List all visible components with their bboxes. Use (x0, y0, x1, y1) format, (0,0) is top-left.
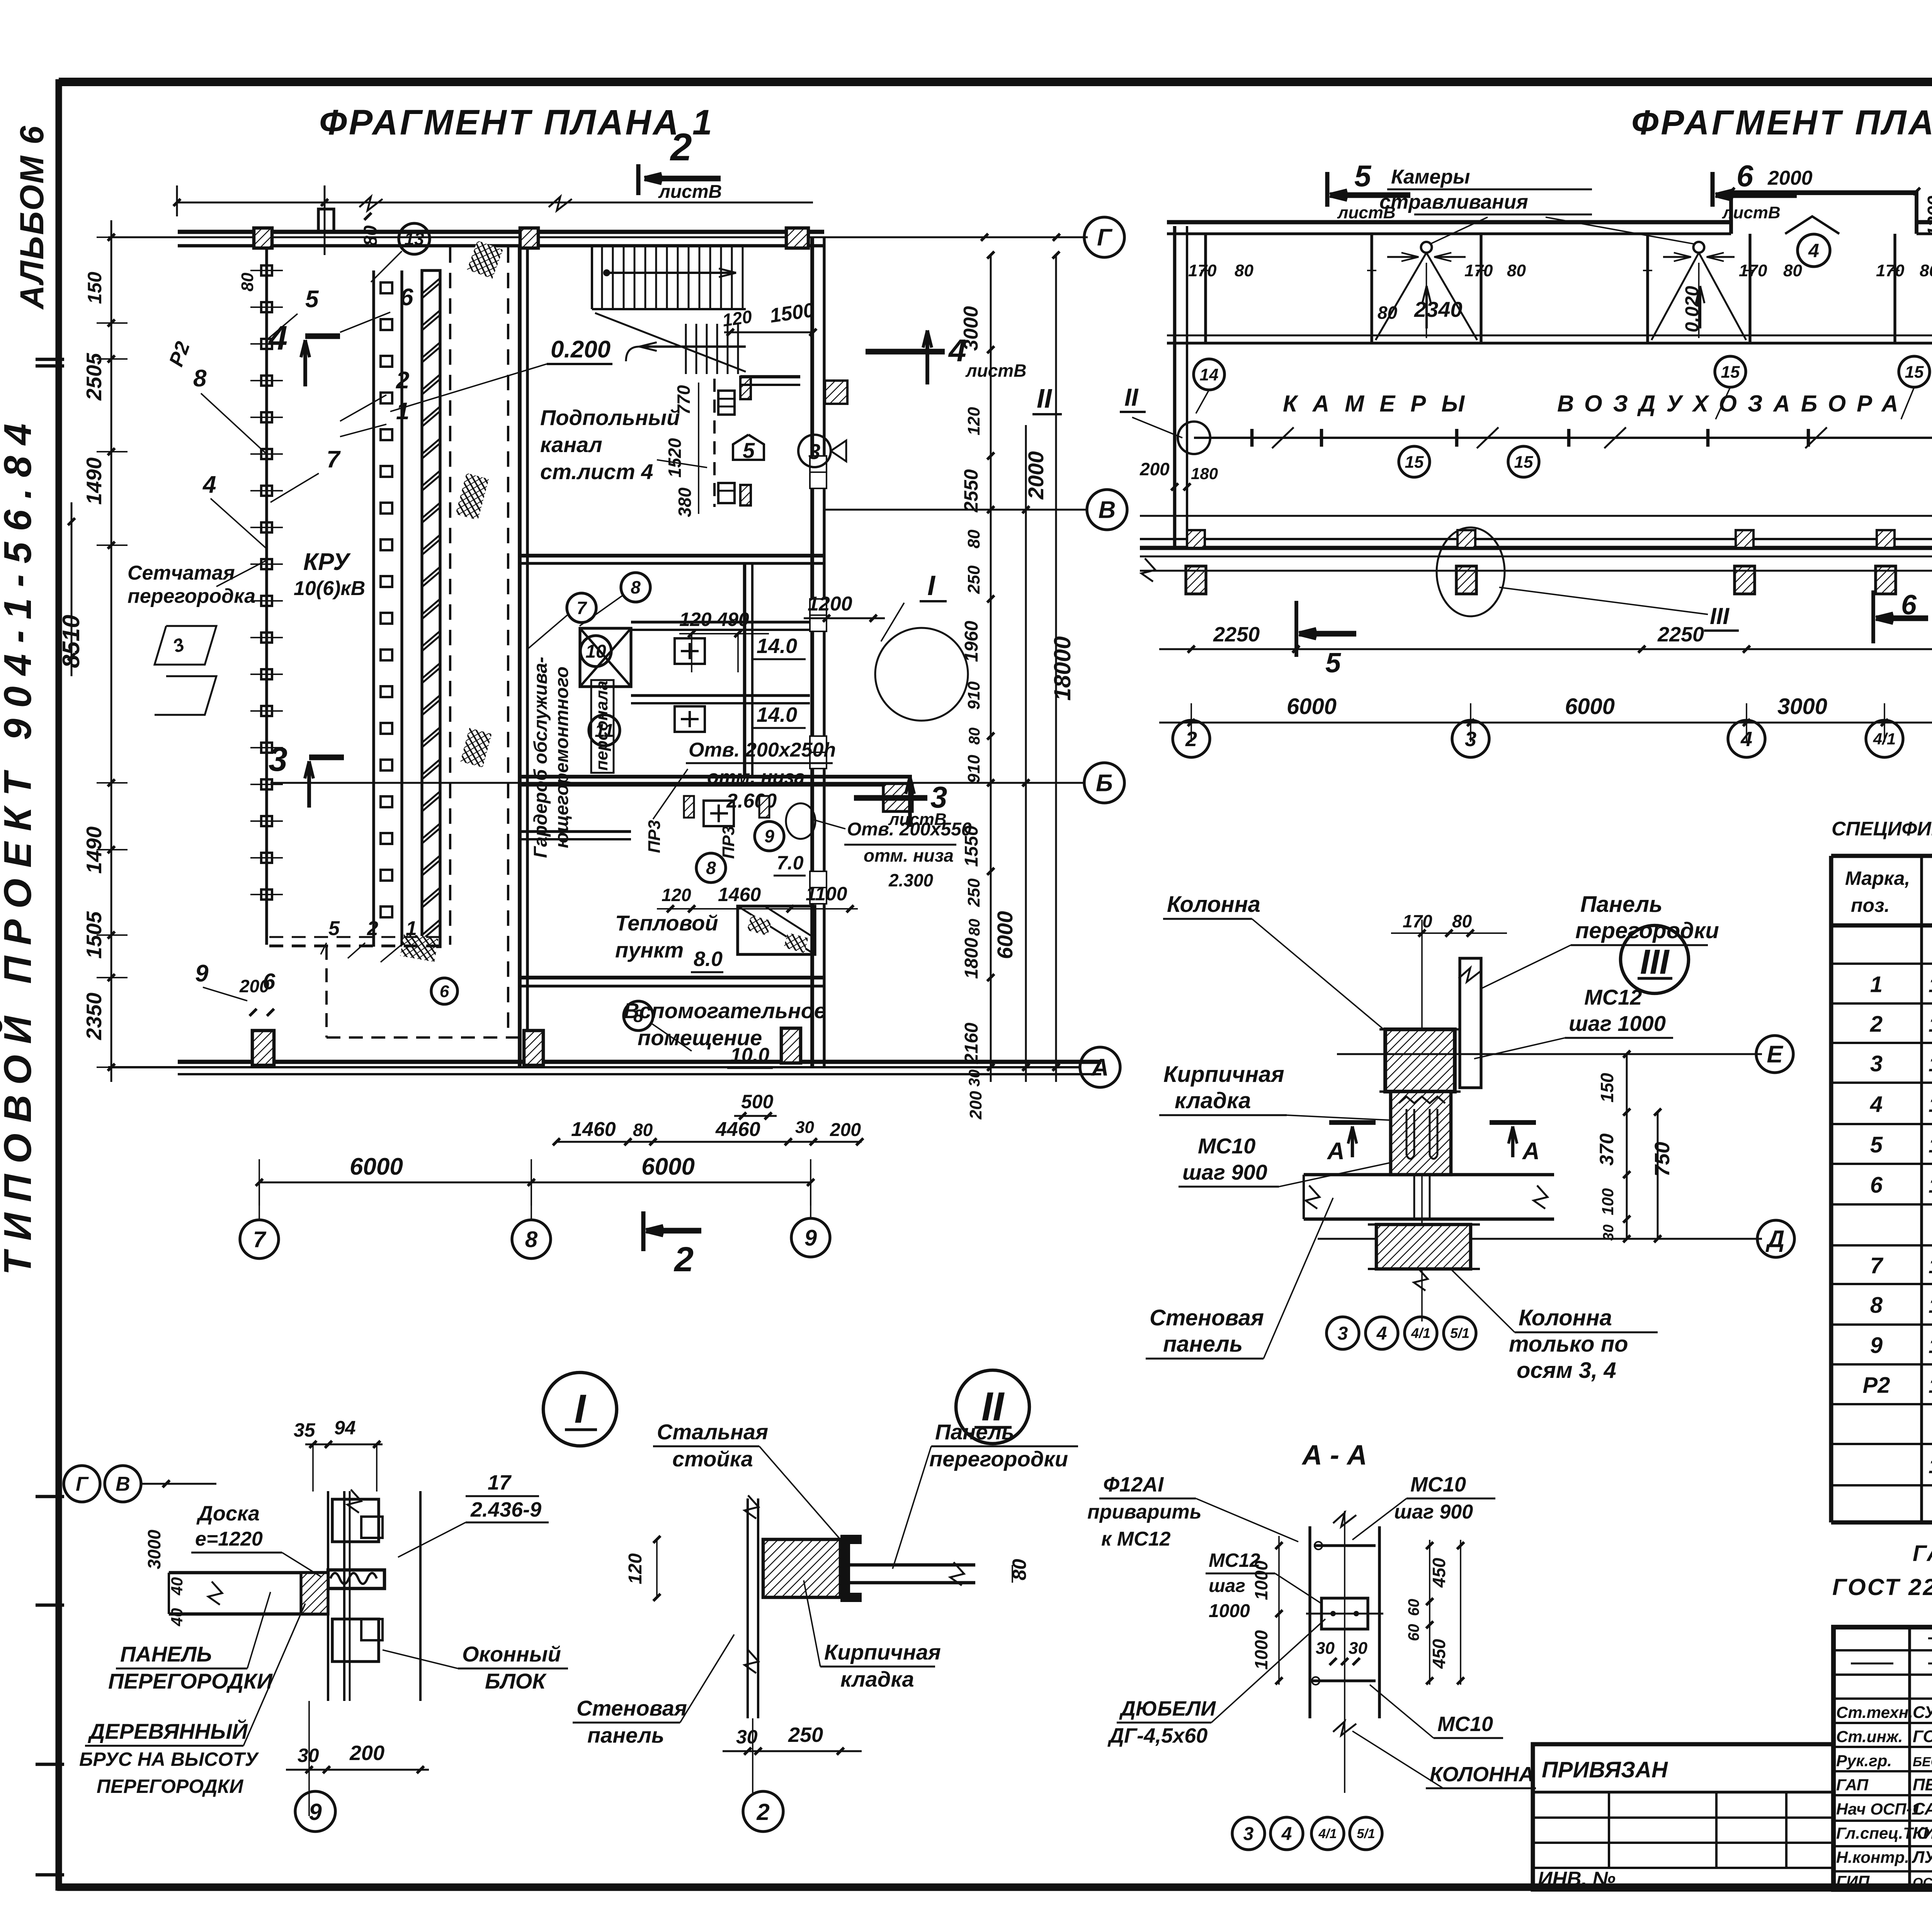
svg-text:8510: 8510 (58, 615, 85, 668)
title block rows left section (1833, 1649, 1932, 1651)
detail AA center plate (1321, 1598, 1368, 1629)
section mark 2 bottom (641, 1211, 646, 1251)
crosshatch opening marks (467, 240, 503, 279)
detail2 steel channel C (840, 1535, 862, 1602)
svg-text:11: 11 (595, 721, 614, 741)
plan1 outer dim 8510 (71, 502, 73, 676)
svg-text:ГИП: ГИП (1836, 1872, 1870, 1891)
axis V circle (1087, 490, 1127, 530)
axis G wall (178, 230, 824, 234)
svg-text:Н.контр.: Н.контр. (1836, 1848, 1909, 1866)
axis A wall and line (108, 1066, 1080, 1068)
svg-text:450: 450 (1429, 1639, 1449, 1669)
svg-text:80: 80 (966, 728, 983, 745)
svg-text:Г: Г (76, 1473, 89, 1495)
circled refs 7 8 (567, 593, 596, 622)
detail AA right dims (1429, 1540, 1430, 1685)
svg-text:Колонна: Колонна (1519, 1305, 1612, 1330)
left margin fold marks (36, 358, 64, 361)
plan2 axis circles (1173, 720, 1210, 757)
svg-text:17: 17 (488, 1471, 512, 1494)
detail III big circle (1621, 925, 1689, 993)
detail III A-A section arrows (1329, 1120, 1376, 1125)
top protrusion (1731, 193, 1917, 234)
svg-text:Стеновая: Стеновая (577, 1696, 687, 1720)
teplovoy punkt room (520, 830, 631, 833)
svg-text:170: 170 (1464, 261, 1493, 280)
svg-text:ДЮБЕЛИ: ДЮБЕЛИ (1119, 1697, 1216, 1720)
plan2 bottom wall (1140, 538, 1932, 540)
fixtures with plus (675, 638, 705, 664)
svg-text:8: 8 (525, 1227, 538, 1252)
svg-text:120 490: 120 490 (679, 609, 749, 630)
detail AA top bolt (1314, 1544, 1376, 1547)
mesh partition wall with posts (265, 247, 268, 945)
svg-text:1: 1 (1870, 972, 1883, 997)
svg-text:стойка: стойка (672, 1447, 753, 1471)
svg-text:40: 40 (168, 1577, 186, 1596)
detail circle I (543, 1372, 617, 1446)
svg-text:7: 7 (1870, 1253, 1884, 1278)
svg-text:120: 120 (662, 885, 691, 905)
svg-text:пункт: пункт (615, 938, 684, 962)
svg-text:4: 4 (1870, 1092, 1883, 1117)
title block outer (1833, 1627, 1932, 1889)
columns in bottom wall and below (1187, 530, 1205, 548)
svg-text:180: 180 (1191, 464, 1218, 483)
svg-text:6000: 6000 (1565, 694, 1615, 719)
svg-text:770: 770 (673, 385, 694, 415)
svg-text:2000: 2000 (1024, 451, 1048, 500)
svg-text:170: 170 (1876, 261, 1905, 280)
svg-text:I: I (927, 570, 936, 601)
svg-text:80: 80 (964, 529, 983, 548)
svg-text:ВОЗДУХОЗАБОРА: ВОЗДУХОЗАБОРА (1557, 391, 1909, 417)
detail III axis E (1337, 1053, 1762, 1055)
svg-text:панель: панель (587, 1723, 664, 1747)
svg-text:30: 30 (795, 1118, 814, 1137)
svg-text:9: 9 (309, 1799, 322, 1825)
svg-text:1.431-10 83.02.02.00-01: 1.431-10 83.02.02.00-01 (1929, 1094, 1932, 1117)
svg-text:4/1: 4/1 (1411, 1325, 1430, 1341)
svg-text:листВ: листВ (965, 361, 1026, 381)
svg-text:СУМАН: СУМАН (1913, 1703, 1932, 1722)
svg-text:170: 170 (1403, 911, 1432, 931)
svg-text:8: 8 (193, 365, 207, 392)
svg-text:КИЯШКО: КИЯШКО (1913, 1824, 1932, 1843)
detail I ellipse on wall (875, 628, 968, 721)
svg-text:14.0: 14.0 (757, 703, 797, 726)
axis D line (1140, 570, 1932, 572)
svg-text:1505: 1505 (82, 911, 106, 959)
svg-text:10(6)кВ: 10(6)кВ (294, 577, 365, 600)
svg-text:9: 9 (1870, 1333, 1883, 1358)
svg-text:Подпольный: Подпольный (540, 405, 680, 430)
mid partition line (1194, 437, 1932, 439)
svg-text:4: 4 (268, 319, 287, 357)
svg-text:1460: 1460 (718, 884, 761, 905)
svg-text:шаг 1000: шаг 1000 (1569, 1011, 1666, 1036)
svg-text:МС10: МС10 (1410, 1473, 1466, 1496)
privyazan block (1533, 1744, 1833, 1889)
svg-text:2: 2 (756, 1799, 769, 1825)
axis A circle (1080, 1047, 1120, 1087)
svg-text:ДГ-4,5х60: ДГ-4,5х60 (1107, 1724, 1207, 1747)
svg-text:МС10: МС10 (1198, 1134, 1255, 1158)
detail III axis D (1318, 1238, 1762, 1240)
svg-text:380: 380 (675, 487, 695, 517)
svg-text:370: 370 (1596, 1133, 1617, 1166)
svg-text:200: 200 (966, 1091, 985, 1120)
svg-text:2000: 2000 (1767, 167, 1813, 189)
windows in right wall (810, 456, 827, 488)
svg-text:МС12: МС12 (1584, 985, 1642, 1009)
plan2 lower dim line1 (1159, 648, 1932, 650)
svg-text:200: 200 (349, 1742, 384, 1765)
svg-text:120: 120 (625, 1553, 646, 1584)
svg-text:ОСТАШЕВСКИЙ: ОСТАШЕВСКИЙ (1913, 1875, 1932, 1890)
svg-text:Б: Б (1096, 770, 1113, 797)
lower wall y2530 (520, 976, 824, 980)
detail9 window frame parts (332, 1499, 379, 1542)
svg-text:1100: 1100 (806, 883, 847, 905)
title block verticals left section (1908, 1627, 1911, 1889)
svg-text:СААКЬЯНЦ: СААКЬЯНЦ (1913, 1799, 1932, 1818)
svg-text:2: 2 (1185, 728, 1197, 751)
svg-text:СПЕЦИФИКАЦИЯ К СХЕМЕ РАСПОЛОЖ: СПЕЦИФИКАЦИЯ К СХЕМЕ РАСПОЛОЖЕНИЯ СЕТЧАТ… (1832, 818, 1932, 840)
section mark 4 listV right (866, 349, 945, 355)
svg-text:9: 9 (804, 1225, 817, 1250)
svg-text:30: 30 (1349, 1639, 1367, 1658)
svg-text:250: 250 (788, 1723, 823, 1747)
svg-text:3: 3 (1338, 1323, 1348, 1344)
detail2 wall panel verticals (747, 1498, 749, 1718)
svg-text:ГАРДЕРОБЫ ОБОРУДОВАНЫ ШКАФАМ: ГАРДЕРОБЫ ОБОРУДОВАНЫ ШКАФАМИ МД-33,3 по (1913, 1541, 1932, 1566)
svg-text:Тепловой: Тепловой (615, 911, 718, 935)
svg-text:30: 30 (1316, 1639, 1335, 1658)
svg-text:ПРИВЯЗАН: ПРИВЯЗАН (1542, 1757, 1668, 1782)
room partition walls (631, 621, 810, 623)
svg-text:2: 2 (673, 1240, 694, 1279)
svg-text:II: II (1037, 383, 1052, 413)
svg-text:ПЕРЕГОРОДКИ: ПЕРЕГОРОДКИ (97, 1776, 243, 1797)
svg-text:8.0: 8.0 (694, 947, 723, 971)
svg-text:80: 80 (361, 225, 381, 246)
svg-text:8: 8 (706, 858, 716, 878)
svg-text:ГОРСКАЯ: ГОРСКАЯ (1913, 1727, 1932, 1746)
detail9 window verticals (327, 1491, 329, 1701)
svg-text:КОЛОННА: КОЛОННА (1430, 1763, 1534, 1786)
window band sill lines (1167, 335, 1932, 337)
svg-text:ПЕРЕГОРОДКИ: ПЕРЕГОРОДКИ (108, 1669, 273, 1693)
section mark 3 listV right (854, 795, 927, 801)
svg-text:120: 120 (964, 407, 983, 435)
svg-text:1.431-10 83.02. 15.00-01: 1.431-10 83.02. 15.00-01 (1929, 1374, 1932, 1398)
svg-text:1550: 1550 (961, 825, 982, 867)
gardrob room top wall (520, 554, 824, 558)
svg-text:250: 250 (964, 878, 983, 907)
svg-text:4: 4 (1376, 1323, 1387, 1344)
svg-text:канал: канал (540, 432, 602, 457)
svg-text:Нач ОСП-1: Нач ОСП-1 (1836, 1800, 1921, 1818)
svg-text:15: 15 (1514, 452, 1533, 471)
svg-text:кладка: кладка (1175, 1088, 1251, 1113)
svg-text:3000: 3000 (960, 306, 982, 351)
svg-text:В: В (1099, 497, 1116, 524)
detail III panel strip (1460, 958, 1481, 1088)
svg-text:2340: 2340 (1414, 297, 1463, 321)
svg-text:15: 15 (1405, 452, 1424, 471)
svg-text:1200: 1200 (808, 593, 852, 615)
svg-text:30: 30 (966, 1070, 983, 1087)
svg-text:ТИПОВОЙ ПРОЕКТ 904-1-56.84: ТИПОВОЙ ПРОЕКТ 904-1-56.84 (0, 413, 39, 1275)
svg-text:94: 94 (334, 1417, 356, 1439)
svg-text:Стеновая: Стеновая (1150, 1305, 1264, 1330)
svg-text:отм. низа: отм. низа (864, 845, 954, 866)
svg-text:200: 200 (830, 1120, 861, 1140)
svg-text:2: 2 (367, 917, 378, 940)
svg-text:8: 8 (633, 1006, 643, 1026)
sheet border frame (59, 78, 1932, 86)
detail III column hatched (1385, 1029, 1455, 1092)
svg-text:0.200: 0.200 (551, 336, 611, 363)
detail III lower column (1376, 1225, 1471, 1269)
svg-text:250: 250 (964, 565, 983, 594)
svg-text:Ст.инж.: Ст.инж. (1836, 1728, 1903, 1746)
svg-text:8: 8 (1870, 1293, 1883, 1318)
svg-text:1: 1 (406, 917, 417, 940)
detail2 brick pier (763, 1539, 840, 1597)
svg-text:4: 4 (1740, 728, 1752, 751)
svg-text:80: 80 (1235, 261, 1253, 280)
svg-text:7: 7 (577, 598, 587, 618)
svg-text:1.431-10 83.02.01.00-02: 1.431-10 83.02.01.00-02 (1929, 1053, 1932, 1076)
svg-text:4/1: 4/1 (1318, 1827, 1337, 1841)
svg-text:120: 120 (721, 306, 753, 330)
svg-text:5: 5 (1354, 159, 1372, 193)
svg-text:200: 200 (239, 976, 269, 996)
svg-text:перегородка: перегородка (128, 585, 255, 607)
svg-text:30: 30 (298, 1745, 319, 1766)
svg-text:1490: 1490 (82, 457, 106, 505)
axis B area wall (520, 775, 912, 779)
svg-text:6: 6 (1736, 159, 1753, 193)
right wall lower part (810, 419, 814, 1067)
svg-text:80: 80 (633, 1120, 653, 1140)
svg-text:9: 9 (764, 826, 774, 846)
svg-text:3000: 3000 (1777, 694, 1827, 719)
svg-text:40: 40 (168, 1608, 186, 1627)
inner wall axis 8 line (518, 247, 522, 1067)
svg-text:Сетчатая: Сетчатая (128, 562, 235, 584)
svg-text:14.0: 14.0 (757, 634, 797, 658)
svg-text:5: 5 (305, 286, 319, 313)
svg-text:III: III (1710, 603, 1730, 629)
svg-text:80: 80 (1507, 261, 1526, 280)
svg-text:А: А (1091, 1054, 1109, 1081)
svg-text:60: 60 (1405, 1624, 1422, 1641)
circled 14 15 marks (1194, 359, 1225, 390)
svg-text:листВ: листВ (888, 810, 947, 829)
svg-text:5: 5 (1870, 1133, 1883, 1158)
svg-text:2505: 2505 (82, 352, 106, 401)
partition post marks (1250, 429, 1254, 447)
dashed lower partition steps (269, 944, 446, 947)
svg-text:Рук.гр.: Рук.гр. (1836, 1752, 1892, 1770)
svg-text:Камеры: Камеры (1391, 166, 1470, 188)
svg-text:1000: 1000 (1251, 1560, 1271, 1600)
svg-text:80: 80 (1783, 261, 1802, 280)
svg-text:шаг 900: шаг 900 (1394, 1501, 1473, 1523)
svg-text:35: 35 (294, 1419, 316, 1441)
detail9 circle 9 (295, 1791, 335, 1832)
right side dim chains of plan1 (990, 255, 992, 1082)
svg-text:750: 750 (1651, 1142, 1674, 1177)
specification table grid (1831, 854, 1932, 858)
svg-text:4: 4 (1281, 1824, 1292, 1844)
svg-text:ГОСТ 22414-77 ОБЩЕЕ КОЛИЧЕСТ: ГОСТ 22414-77 ОБЩЕЕ КОЛИЧЕСТВО ШКАФОВ - … (1832, 1574, 1932, 1600)
partition left end circle (1178, 422, 1210, 454)
svg-text:2250: 2250 (1657, 623, 1704, 646)
detail III bottom axis circles (1327, 1317, 1359, 1349)
svg-text:9: 9 (195, 960, 209, 987)
svg-text:4460: 4460 (715, 1118, 760, 1141)
svg-text:II: II (1124, 383, 1139, 411)
axis B circle (1084, 763, 1124, 803)
svg-text:Панель: Панель (935, 1420, 1014, 1444)
svg-text:В: В (116, 1473, 130, 1495)
svg-text:Гардероб обслужива-: Гардероб обслужива- (531, 657, 551, 858)
plan2 top wall (1167, 220, 1731, 224)
svg-text:МС10: МС10 (1437, 1713, 1493, 1736)
detail2 circle 2 (743, 1791, 783, 1832)
svg-text:150: 150 (84, 272, 105, 304)
svg-text:перегородки: перегородки (1575, 918, 1719, 943)
circled 13 mark (399, 223, 430, 254)
svg-text:3000: 3000 (144, 1529, 164, 1569)
svg-text:листВ: листВ (658, 182, 722, 202)
svg-text:ГАП: ГАП (1836, 1776, 1869, 1794)
svg-text:10: 10 (585, 641, 606, 662)
svg-text:ющегоремонтного: ющегоремонтного (552, 667, 572, 848)
svg-text:осям 3, 4: осям 3, 4 (1517, 1358, 1616, 1383)
svg-text:ФРАГМЕНТ ПЛАНА 2: ФРАГМЕНТ ПЛАНА 2 (1631, 104, 1932, 142)
svg-text:1200: 1200 (1924, 196, 1932, 237)
svg-text:1460: 1460 (571, 1118, 616, 1141)
svg-text:Д: Д (1765, 1226, 1785, 1253)
detail9 panel band (169, 1571, 328, 1575)
svg-text:3: 3 (269, 740, 287, 778)
svg-text:1490: 1490 (82, 826, 106, 874)
svg-text:2250: 2250 (1213, 623, 1260, 646)
svg-text:80: 80 (966, 919, 983, 936)
svg-text:1.431-10 83.02.05.00-03: 1.431-10 83.02.05.00-03 (1929, 1255, 1932, 1278)
axis circles 7 8 9 (240, 1220, 279, 1259)
columns on axis G (254, 228, 272, 248)
plan2 section mark 5 bottom (1294, 601, 1298, 657)
detail9 spring hatch center (330, 1573, 377, 1584)
detail AA axis circles (1232, 1817, 1265, 1850)
svg-text:2160: 2160 (961, 1022, 982, 1064)
svg-text:6000: 6000 (993, 911, 1017, 959)
axis V line (825, 509, 1088, 511)
svg-text:1.431-10 83.02.03.00: 1.431-10 83.02.03.00 (1929, 1134, 1932, 1157)
svg-text:Г: Г (1097, 224, 1113, 251)
svg-text:30: 30 (1600, 1225, 1617, 1241)
svg-text:6000: 6000 (350, 1153, 403, 1180)
svg-text:БЛОК: БЛОК (485, 1669, 547, 1693)
vent window rect (738, 906, 815, 954)
plan1 top dim line (177, 202, 813, 204)
svg-text:170: 170 (1739, 261, 1767, 280)
svg-text:3: 3 (930, 780, 947, 814)
svg-text:6000: 6000 (1287, 694, 1337, 719)
svg-text:Кирпичная: Кирпичная (824, 1640, 941, 1664)
anchor U shapes (1406, 1109, 1414, 1159)
svg-text:ЛУЦЕНКО: ЛУЦЕНКО (1912, 1848, 1932, 1867)
svg-text:3: 3 (1243, 1824, 1254, 1844)
svg-text:Доска: Доска (196, 1502, 260, 1525)
svg-text:1000: 1000 (1209, 1601, 1250, 1621)
axis B line (270, 782, 1085, 784)
svg-text:5/1: 5/1 (1450, 1325, 1469, 1341)
svg-text:БЕСКОРОВАЙНЫЙ: БЕСКОРОВАЙНЫЙ (1913, 1754, 1932, 1769)
svg-text:ДЕРЕВЯННЫЙ: ДЕРЕВЯННЫЙ (88, 1719, 248, 1743)
detail AA bottom bolt (1312, 1679, 1376, 1682)
svg-text:Е: Е (1767, 1041, 1783, 1068)
svg-text:Ф12АI: Ф12АI (1103, 1473, 1164, 1496)
svg-text:КАМЕРЫ: КАМЕРЫ (1283, 391, 1480, 417)
KRU cabinet rails (372, 270, 375, 947)
svg-text:III: III (1640, 943, 1670, 981)
svg-text:60: 60 (1405, 1599, 1422, 1616)
hatched pier right of stair (825, 381, 847, 404)
stair right wall (810, 237, 814, 419)
svg-text:Стальная: Стальная (657, 1420, 768, 1444)
detail9 axis circles G V (64, 1466, 100, 1502)
svg-text:Панель: Панель (1580, 892, 1663, 917)
svg-text:3: 3 (1870, 1051, 1883, 1077)
svg-text:Р2: Р2 (1863, 1373, 1890, 1398)
X-window bays with opener symbols (1421, 242, 1432, 253)
axis 4 circle top (1798, 234, 1830, 267)
svg-text:Отв. 200х250h: Отв. 200х250h (689, 739, 836, 761)
svg-text:Колонна: Колонна (1167, 892, 1260, 917)
svg-text:ПР3: ПР3 (645, 820, 664, 853)
svg-text:2.436-9: 2.436-9 (470, 1498, 541, 1521)
canopy stub top-left (318, 209, 334, 232)
corridor dashed lines (449, 247, 451, 945)
svg-text:6: 6 (440, 982, 449, 1001)
parallelogram mark 3 (155, 626, 216, 665)
svg-text:2550: 2550 (960, 469, 982, 512)
crossed storage rect (580, 628, 631, 687)
axis G line (108, 236, 1088, 238)
svg-text:15: 15 (1905, 362, 1924, 381)
svg-text:стравливания: стравливания (1379, 191, 1528, 213)
svg-text:3: 3 (808, 439, 820, 464)
channel equipment (713, 379, 716, 507)
svg-text:6: 6 (1870, 1173, 1883, 1198)
circle mark 3 hex (798, 435, 831, 467)
svg-text:500: 500 (741, 1091, 774, 1112)
svg-text:6: 6 (1901, 590, 1917, 621)
svg-text:ИНВ. №: ИНВ. № (1538, 1868, 1616, 1890)
svg-text:910: 910 (964, 755, 983, 783)
svg-text:15: 15 (1721, 362, 1740, 381)
window mullions (1204, 234, 1207, 343)
detail2 panel band (850, 1563, 975, 1567)
